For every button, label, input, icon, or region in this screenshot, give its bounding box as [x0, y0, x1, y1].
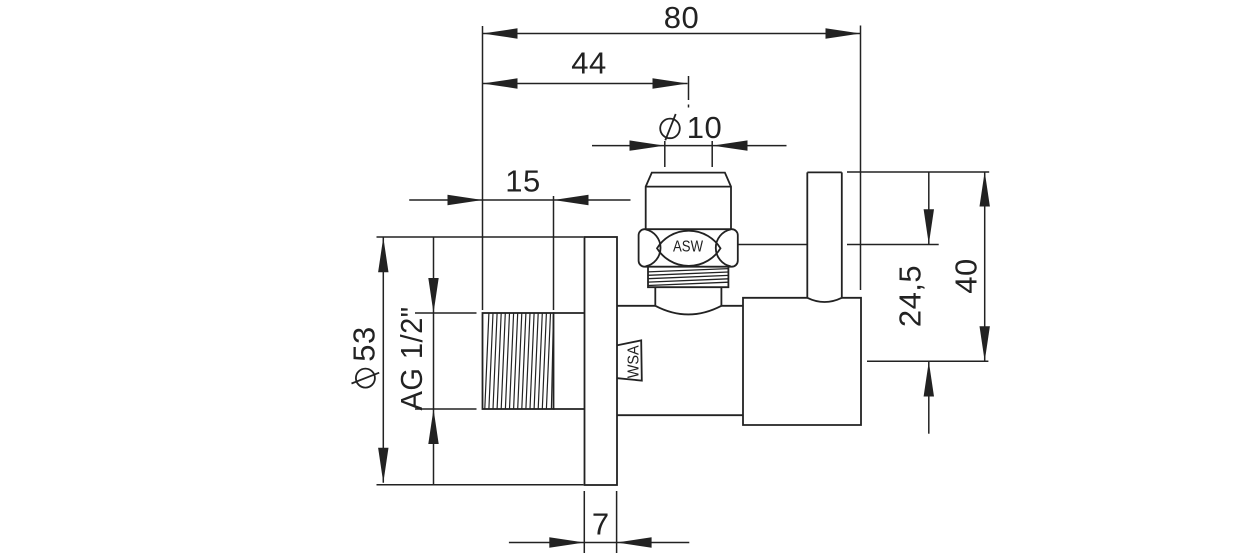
dimension 10 arrow right [713, 140, 748, 150]
dimension 80 arrow right [826, 28, 861, 38]
extension line flange bottom [377, 484, 584, 486]
dimension 24,5 arrow lower [924, 362, 934, 397]
dimension 10 arrow left [630, 140, 665, 150]
body wedge tag [617, 340, 641, 380]
svg-text:15: 15 [505, 164, 540, 199]
dimension 53 arrow top [378, 237, 388, 272]
extension lines for 7 [584, 491, 616, 553]
nut label ASW [673, 239, 703, 256]
svg-text:80: 80 [664, 0, 699, 35]
dimension 53 line [382, 237, 384, 482]
dimension 7 arrow left [549, 537, 584, 547]
flange (wall rosette) [585, 237, 618, 485]
dimension 40 arrow bottom [980, 326, 990, 361]
bonnet collar sides [655, 287, 721, 306]
dimension 15 arrow right [554, 195, 589, 205]
hex nut left facet arc [646, 229, 661, 266]
dimension AG line [433, 237, 435, 485]
outlet pipe top edge [807, 171, 842, 173]
dimension 53 arrow bottom [378, 448, 388, 483]
svg-text:53: 53 [347, 326, 382, 361]
dimension 24,5 text [893, 265, 928, 327]
svg-text:7: 7 [592, 507, 610, 542]
extension lines for 10 [665, 141, 712, 167]
dimension 15 line [409, 199, 630, 201]
extension lines AG dimension [415, 313, 477, 409]
valve body bottom edge [617, 414, 743, 416]
dimension 24,5 line lower [928, 362, 930, 434]
nipple pipe between thread and flange [554, 313, 585, 409]
thread hatch lines [485, 313, 554, 409]
dimension 44 arrow right [653, 78, 688, 88]
wedge label ASW vertical [626, 345, 643, 378]
dimension 80 line [483, 33, 861, 35]
dimension 44 text [571, 46, 606, 81]
dimension 80 text [664, 0, 699, 35]
svg-text:44: 44 [571, 46, 606, 81]
svg-text:AG 1/2": AG 1/2" [394, 307, 429, 411]
outlet pipe root arc [807, 298, 842, 302]
handle cap [646, 173, 731, 230]
centreline dot [688, 105, 690, 108]
dimension 7 text [592, 507, 610, 542]
extension line nut level [738, 244, 938, 246]
svg-text:WSA: WSA [626, 345, 643, 378]
dimension 44 line [483, 83, 688, 85]
bonnet dome arc [655, 306, 721, 315]
extension line left datum x482 [482, 26, 484, 310]
svg-text:10: 10 [687, 110, 722, 145]
dimension 40 line [984, 172, 986, 362]
svg-text:ASW: ASW [673, 239, 703, 256]
dimension 44 end tick [688, 76, 690, 100]
thread AG 1/2 body rectangle [483, 313, 554, 409]
diameter symbol of 10 [660, 114, 680, 140]
dimension AG arrow lower [428, 409, 438, 444]
dimension 40 arrow top [980, 172, 990, 207]
knurl lines [648, 269, 728, 286]
svg-text:24,5: 24,5 [893, 265, 928, 327]
dimension 10 line [592, 145, 787, 147]
hex nut right facet arc [716, 229, 731, 266]
outlet pipe walls [807, 172, 842, 297]
dimension AG text [394, 307, 429, 411]
extension line right x860 [860, 26, 862, 291]
diameter symbol of 53 [352, 369, 380, 388]
dimension 7 line [509, 542, 689, 544]
dimension 7 arrow right [617, 537, 652, 547]
hex nut outline [639, 229, 738, 267]
knurl band outline [648, 267, 728, 287]
extension line axis level [867, 360, 988, 362]
dimension 80 arrow left [483, 28, 518, 38]
outlet block [743, 298, 861, 425]
dimension 24,5 line upper [928, 172, 930, 245]
dimension 44 arrow left [483, 78, 518, 88]
dimension 15 text [505, 164, 540, 199]
dimension 10 text [687, 110, 722, 145]
extension line pipe top right [847, 171, 989, 173]
extension line flange top [377, 236, 584, 238]
dimension AG arrow upper [428, 278, 438, 313]
dimension 53 text [347, 326, 382, 361]
svg-text:40: 40 [948, 258, 983, 293]
extension line x553 [553, 196, 555, 310]
dimension 15 arrow left [448, 195, 483, 205]
dimension 40 text [948, 258, 983, 293]
valve body top edge [617, 305, 743, 307]
hex nut centre facet lens [657, 231, 721, 266]
dimension 24,5 arrow upper [924, 209, 934, 244]
